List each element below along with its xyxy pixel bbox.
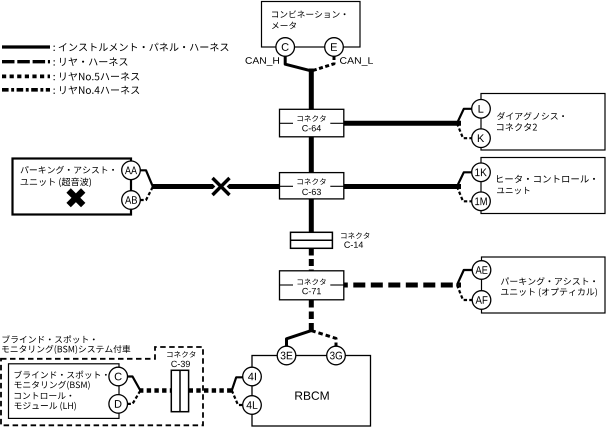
- connector C-14 label: [341, 232, 369, 239]
- label C-39: [171, 361, 190, 367]
- wire C-64 to diagnosis connector (solid thick): [344, 121, 461, 126]
- BSM control module label line4: [15, 402, 76, 411]
- connector C-64 label: [297, 115, 325, 122]
- label C-71: [302, 288, 321, 294]
- label C-14: [344, 242, 363, 248]
- legend label rear No.5 harness: [53, 72, 139, 81]
- branch wire to pin 4I (solid): [232, 377, 243, 390]
- label RBCM: [295, 391, 328, 400]
- BSM system header line1: [3, 335, 95, 343]
- pin 4I (RBCM): [243, 367, 262, 386]
- pin D (BSM module): [109, 395, 128, 414]
- parking assist unit (optical) box: [482, 257, 606, 313]
- parking assist optical label line2: [501, 288, 597, 297]
- branch wire to pin K (dashed): [457, 123, 472, 138]
- branch wire to pin 1K (solid): [457, 172, 472, 186]
- trunk wire C-14 to C-71 (dashed, rear harness): [309, 249, 314, 272]
- legend line dotted: rear No.5 harness: [2, 75, 50, 79]
- trunk wire meter to C-64 (solid, instrument panel harness): [309, 69, 314, 111]
- combination meter label line2: [272, 22, 296, 29]
- bold X mark (not equipped): [69, 191, 84, 206]
- pin 1M (heater control unit): [472, 192, 491, 211]
- cut mark X on wire: [213, 178, 230, 195]
- parking assist unit (ultrasonic) box: [13, 159, 132, 215]
- pin 1K (heater control unit): [472, 163, 491, 182]
- legend label rear No.4 harness: [53, 86, 139, 95]
- legend line solid: instrument panel harness: [2, 45, 50, 48]
- branch wire to pin AE (solid): [457, 270, 473, 285]
- branch wire to pin 1M (dashed): [457, 187, 472, 202]
- wire CAN_H from pin C (solid): [285, 56, 310, 71]
- heater control unit label line1: [497, 175, 595, 183]
- branch wire from pin AA (solid): [140, 170, 152, 185]
- parking assist ultrasonic label line2: [21, 178, 91, 187]
- branch wire from pin AB (dashed): [140, 188, 152, 200]
- pin 4L (RBCM): [243, 396, 262, 415]
- heater control unit label line2: [497, 187, 529, 194]
- combination meter label line1: [272, 10, 345, 18]
- branch wire to pin L (solid): [457, 109, 472, 124]
- branch wire to pin 4L (dashed): [232, 390, 243, 405]
- label CAN_L: [340, 57, 373, 66]
- BSM control module box: [9, 364, 120, 419]
- branch wire from pin C (solid): [128, 377, 140, 390]
- connector C-64 box: [280, 109, 344, 137]
- pin AE (parking assist optical): [472, 261, 491, 280]
- connector C-14 symbol: [291, 232, 333, 248]
- connector C-71 box: [280, 271, 344, 300]
- trunk wire C-63 to C-14 (solid): [309, 199, 314, 233]
- parking assist ultrasonic label line1: [21, 166, 114, 174]
- combination meter box: [262, 2, 361, 48]
- wire C-63 to heater control unit (solid thick): [344, 184, 461, 189]
- trunk wire C-71 to RBCM junction (dashed): [309, 300, 314, 332]
- heater control unit box: [481, 158, 605, 214]
- branch wire to pin 3E (solid): [287, 331, 312, 347]
- pin 3G (RBCM): [327, 346, 346, 365]
- BSM system dashed outline: [1, 347, 203, 425]
- wire BSM module to C-39 (dotted, rear No.5 harness): [139, 388, 171, 393]
- wire C-71 to parking assist optical (dashed thick): [344, 283, 461, 288]
- legend label rear harness: [53, 57, 127, 66]
- BSM system header line2: [2, 345, 130, 354]
- connector C-39 symbol: [171, 370, 188, 411]
- branch wire to pin 3G (dashed): [311, 331, 336, 347]
- BSM control module label line1: [15, 371, 107, 379]
- pin AF (parking assist optical): [472, 291, 491, 310]
- wire C-39 to RBCM (dotted): [189, 388, 232, 393]
- branch wire from pin D (dashed): [128, 392, 140, 404]
- parking assist optical label line1: [501, 277, 595, 285]
- diagnosis connector 2 label line1: [497, 112, 564, 120]
- RBCM box: [252, 356, 371, 427]
- pin L (diagnosis connector): [472, 100, 491, 119]
- diagnosis connector 2 box: [481, 94, 605, 151]
- pin E (combination meter): [325, 38, 344, 57]
- connector C-63 label: [297, 178, 325, 185]
- label C-63: [302, 189, 321, 195]
- pin 3E (RBCM): [277, 346, 296, 365]
- BSM control module label line2: [15, 381, 90, 390]
- label CAN_H: [245, 57, 279, 66]
- branch wire to pin AF (dashed): [457, 285, 472, 300]
- legend label instrument panel harness: [53, 43, 228, 52]
- pin AA (parking assist ultrasonic): [122, 161, 141, 180]
- label C-64: [302, 125, 321, 131]
- wire C-63 to parking assist ultrasonic (solid thick): [152, 184, 280, 189]
- diagnosis connector 2 label line2: [497, 123, 537, 131]
- legend line dash-dot: rear No.4 harness: [2, 88, 50, 92]
- connector C-63 box: [280, 173, 344, 199]
- connector C-39 label: [167, 351, 195, 358]
- BSM control module label line3: [15, 392, 72, 399]
- pin C (combination meter): [276, 38, 295, 57]
- pin AB (parking assist ultrasonic): [122, 191, 141, 210]
- wire CAN_L from pin E (dashed): [313, 56, 335, 71]
- pin K (diagnosis connector): [472, 129, 491, 148]
- legend line dashed: rear harness: [2, 60, 50, 63]
- trunk wire C-64 to C-63 (solid): [309, 137, 314, 174]
- pin C (BSM module): [109, 367, 128, 386]
- connector C-71 label: [297, 279, 325, 286]
